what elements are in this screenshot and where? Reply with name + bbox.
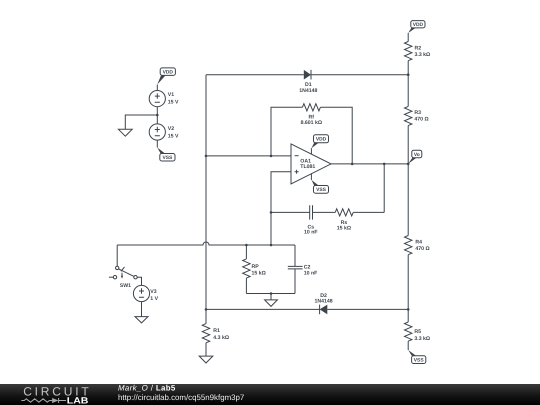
svg-text:R5: R5 (414, 329, 421, 335)
wire RP/C2 top with hop (117, 242, 295, 245)
node junction bottom-left (205, 308, 208, 311)
svg-text:V2: V2 (168, 126, 174, 132)
node junction RP top (245, 244, 248, 247)
node junction Vo (407, 163, 410, 166)
node junction block ground (270, 292, 273, 295)
svg-text:RP: RP (252, 264, 260, 270)
wire plus input (271, 172, 291, 245)
svg-text:R4: R4 (415, 240, 422, 246)
wire R5 to VSS (407, 341, 409, 350)
wire switch to V3 (137, 277, 141, 285)
wire rail top (407, 33, 409, 42)
switch SW1 (109, 266, 137, 289)
svg-text:8.601 kΩ: 8.601 kΩ (301, 120, 322, 126)
svg-text:VDD: VDD (316, 137, 327, 143)
svg-text:LAB: LAB (67, 395, 89, 405)
ground left (118, 129, 132, 136)
wire top D1 rail (206, 74, 408, 76)
wire V2 to VSS (156, 140, 158, 147)
source V1 (149, 91, 179, 107)
svg-text:15 kΩ: 15 kΩ (337, 225, 351, 231)
svg-text:470 Ω: 470 Ω (414, 117, 428, 123)
svg-text:3.3 kΩ: 3.3 kΩ (415, 52, 431, 58)
node VSS flag op-amp (311, 180, 328, 193)
node junction plus branch (270, 244, 273, 247)
svg-text:Vo: Vo (414, 152, 420, 158)
resistor R2 (405, 42, 431, 61)
wire R3 to R4 (407, 126, 409, 236)
node VSS flag rail (408, 350, 426, 364)
wire R4 to R5 (407, 255, 409, 322)
wire R2 to R3 (407, 61, 409, 107)
capacitor Cs (304, 205, 318, 235)
node junction feedback/output (351, 163, 354, 166)
wire branch vertical (383, 164, 385, 213)
svg-text:V1: V1 (168, 92, 174, 98)
svg-text:3.3 kΩ: 3.3 kΩ (414, 336, 430, 342)
svg-text:10 nF: 10 nF (304, 229, 318, 235)
ground RP/C2 (265, 300, 278, 307)
node junction Cs branch tap (270, 211, 273, 214)
wire V1 to junction (156, 107, 158, 124)
wire V3 to ground (141, 302, 143, 317)
diode D1 (299, 70, 317, 94)
node VDD flag left (157, 68, 175, 85)
svg-text:VSS: VSS (414, 358, 425, 364)
resistor Rs (335, 209, 353, 232)
resistor R3 (405, 106, 429, 125)
node junction bottom-right (407, 308, 410, 311)
svg-text:http://circuitlab.com/cq55n9kf: http://circuitlab.com/cq55n9kfgm3p7 (118, 393, 244, 402)
svg-text:Mark_O / Lab5: Mark_O / Lab5 (118, 384, 176, 393)
node junction D1 rail (407, 73, 410, 76)
wire bottom D2 rail (206, 308, 408, 310)
source V3 (133, 285, 158, 302)
ground R1 (199, 356, 213, 363)
svg-text:10 nF: 10 nF (304, 270, 318, 276)
wire ground stem (270, 294, 272, 300)
wire switch branch (116, 245, 118, 266)
svg-text:15 kΩ: 15 kΩ (252, 270, 266, 276)
svg-text:VDD: VDD (413, 22, 424, 28)
svg-text:15 V: 15 V (168, 134, 179, 140)
resistor R1 (202, 309, 229, 356)
diode D2 (315, 293, 333, 314)
node VDD flag rail (408, 21, 425, 33)
ground V3 (135, 317, 148, 323)
svg-text:VDD: VDD (163, 69, 174, 75)
node junction minus-wire (205, 155, 208, 158)
node junction V1V2 (156, 114, 159, 117)
resistor R4 (405, 236, 430, 255)
wire left main vertical (205, 75, 207, 310)
svg-text:470 Ω: 470 Ω (415, 246, 429, 252)
svg-text:R2: R2 (415, 45, 422, 51)
svg-text:1N4148: 1N4148 (315, 299, 333, 305)
wire RP/C2 bottom (246, 293, 295, 295)
wire op-amp VDD pin (310, 148, 312, 154)
op-amp OA1 (291, 144, 331, 184)
svg-text:15 V: 15 V (168, 100, 179, 106)
wire minus input (206, 155, 291, 157)
svg-text:V3: V3 (150, 289, 156, 295)
svg-text:1 V: 1 V (150, 296, 158, 302)
wire feedback loop left/top (271, 107, 302, 156)
source V2 (149, 124, 179, 140)
node junction branch/output (383, 163, 386, 166)
wire junction to ground (125, 115, 157, 129)
svg-text:SW1: SW1 (120, 283, 131, 289)
node Vo flag (408, 150, 422, 164)
wire output (331, 163, 408, 165)
svg-text:4.3 kΩ: 4.3 kΩ (213, 335, 229, 341)
resistor Rf (301, 104, 322, 126)
svg-text:VSS: VSS (163, 155, 174, 161)
svg-text:TL081: TL081 (300, 164, 315, 170)
svg-text:1N4148: 1N4148 (299, 88, 317, 94)
svg-text:R1: R1 (213, 328, 220, 334)
svg-text:D1: D1 (305, 82, 312, 88)
node VSS flag left (157, 148, 175, 162)
wire Cs-Rs branch (271, 211, 384, 213)
svg-text:R3: R3 (414, 110, 421, 116)
wire op-amp VSS pin (310, 174, 312, 180)
resistor RP (243, 245, 266, 294)
node VDD flag op-amp (311, 135, 328, 148)
wire VDD to V1 (156, 85, 158, 91)
node junction feedback tap (270, 155, 273, 158)
svg-text:VSS: VSS (316, 187, 327, 193)
capacitor C2 (288, 245, 318, 294)
wire feedback loop right (320, 107, 352, 164)
resistor R5 (405, 322, 431, 342)
